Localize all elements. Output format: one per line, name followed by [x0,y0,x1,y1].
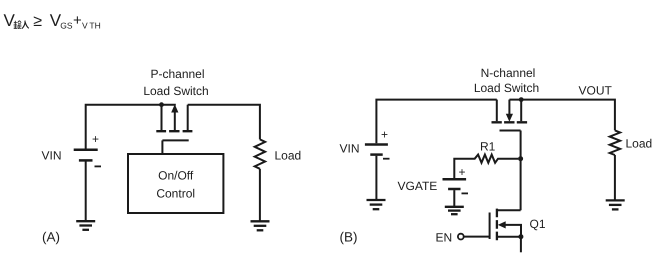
svg-text:Load Switch: Load Switch [143,84,208,98]
transistor Q1 [490,209,521,241]
wire VIN rail to drain (B) [376,100,496,144]
svg-text:Load: Load [275,149,302,163]
ground below Load (B) [606,200,625,209]
node Q1 source junction [518,234,523,239]
svg-text:Load Switch: Load Switch [474,81,539,95]
svg-text:V TH: V TH [82,21,101,31]
wire body/source rail to VOUT corner (B) [509,100,615,131]
node R1 junction [518,156,523,161]
transistor N-channel pass FET (B) [492,100,528,131]
node source junction B [519,97,524,102]
resistor Load (B) [610,130,620,155]
hand-drawn CJK subscript 输 [14,21,22,29]
svg-text:P-channel: P-channel [150,67,204,81]
svg-text:VIN: VIN [42,149,62,163]
wire drain rail to load (A) [188,105,260,140]
svg-text:+: + [459,165,466,179]
wire Q1 source down [520,237,522,253]
svg-text:+: + [92,132,99,146]
wire load to ground (A) [259,169,261,221]
svg-text:N-channel: N-channel [481,66,536,80]
wire load to ground (B) [614,155,616,200]
svg-text:≥: ≥ [33,13,42,30]
formula V_input >= V_GS + V_TH [4,11,101,31]
ground below VIN (B) [367,200,386,209]
node source junction A [159,102,164,107]
battery VGATE [443,179,467,207]
label - (A battery) [95,165,102,167]
svg-text:(A): (A) [42,230,60,245]
svg-text:V: V [4,11,16,30]
label P-channel Load Switch [143,67,208,98]
hand-drawn CJK subscript 入 [22,21,29,29]
svg-text:+: + [73,12,82,29]
battery VIN (B) [365,145,388,201]
resistor Load (A) [255,139,265,168]
label N-channel Load Switch [474,66,539,95]
svg-text:+: + [381,128,388,142]
svg-text:R1: R1 [480,140,496,154]
svg-text:Load: Load [626,136,653,150]
svg-text:On/Off: On/Off [158,169,194,183]
svg-text:VIN: VIN [340,142,360,156]
svg-text:Q1: Q1 [530,217,546,231]
wire EN to Q1 gate [464,236,490,238]
block On/Off Control (A) [128,154,223,213]
svg-text:GS: GS [60,21,73,31]
svg-text:(B): (B) [340,229,358,244]
ground below VIN (A) [76,221,95,230]
label - (VGATE battery) [462,192,469,194]
ground below Load (A) [251,221,270,230]
svg-text:EN: EN [436,230,453,244]
resistor R1 [454,155,518,179]
ground below VGATE [445,207,464,214]
wire VIN rail to source/body (A) [86,105,176,149]
battery VIN (A) [74,150,98,221]
svg-text:Control: Control [156,187,195,201]
label - (B VIN battery) [383,158,390,160]
svg-text:VGATE: VGATE [398,179,438,193]
node EN input circle [458,234,464,240]
transistor P-channel pass FET (A) [156,104,192,154]
wire gate of pass FET down through R1 node to Q1 drain (B) [520,131,522,211]
svg-text:VOUT: VOUT [579,83,613,97]
